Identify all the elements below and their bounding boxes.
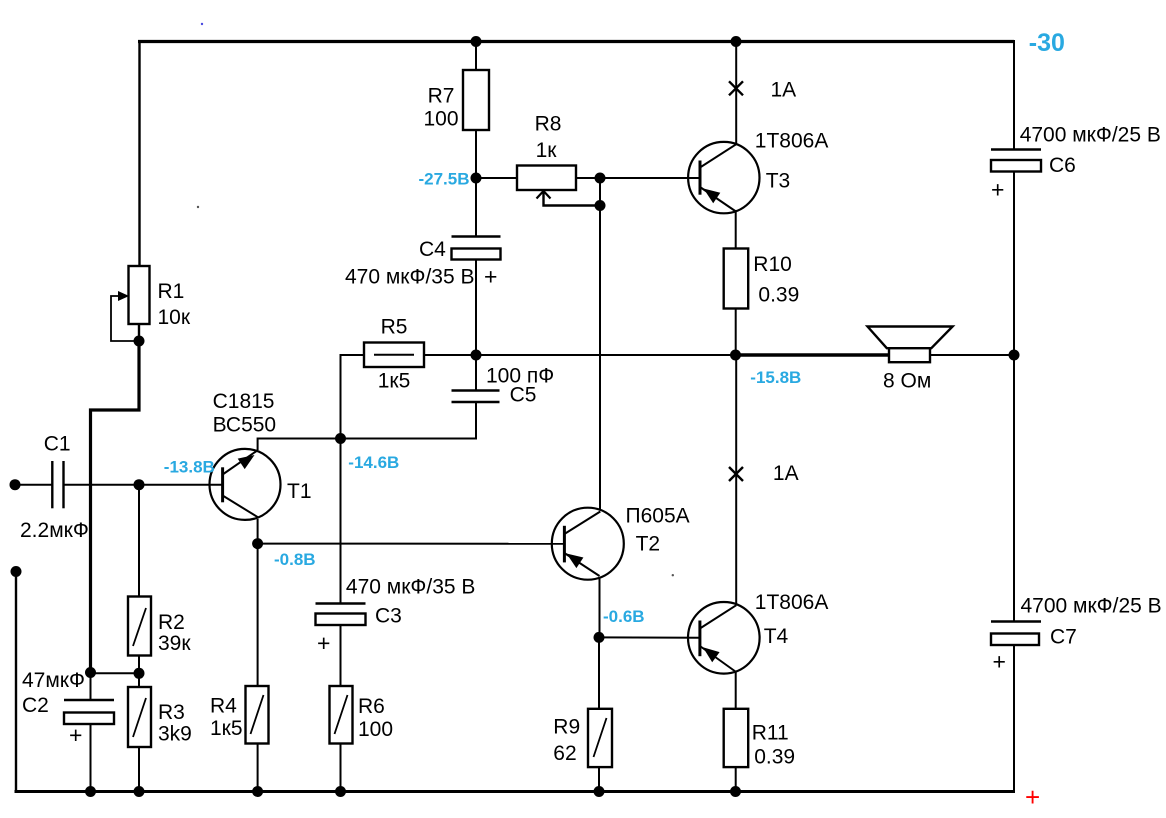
- svg-text:R10: R10: [753, 253, 792, 276]
- svg-text:С5: С5: [510, 384, 537, 407]
- wire top -30 rail: [138, 40, 1014, 43]
- fuse 1A top: [729, 81, 743, 95]
- wire bottom plus rail: [15, 790, 1016, 793]
- svg-text:С2: С2: [22, 694, 49, 717]
- wire thick branch from R1 junction down left: [91, 341, 140, 673]
- node R1 bottom: [134, 336, 145, 347]
- transistor T4: [688, 602, 760, 674]
- node ground terminal: [11, 566, 22, 577]
- wire T4 emitter to R11: [735, 671, 737, 710]
- svg-text:+: +: [1025, 782, 1040, 812]
- svg-text:3k9: 3k9: [158, 723, 192, 746]
- wire -0.6 node down to R9: [598, 637, 600, 709]
- wire C2 bottom to rail: [90, 723, 92, 792]
- svg-text:4700 мкФ/25 В: 4700 мкФ/25 В: [1020, 124, 1161, 147]
- wire R9 bottom to rail: [598, 766, 600, 792]
- svg-text:-14.6В: -14.6В: [348, 453, 399, 472]
- wire R2 to R3: [138, 655, 140, 689]
- svg-text:R8: R8: [535, 113, 562, 136]
- svg-text:R4: R4: [210, 695, 237, 718]
- svg-text:R9: R9: [553, 716, 580, 739]
- svg-text:4700 мкФ/25 В: 4700 мкФ/25 В: [1021, 595, 1162, 618]
- node R2 R3: [134, 668, 145, 679]
- svg-text:ВС550: ВС550: [213, 414, 277, 437]
- wire vertical x600 from R8 node to T2 collector: [599, 178, 601, 509]
- node -27.5V: [471, 173, 482, 184]
- node -14.6V: [335, 433, 346, 444]
- node R8 right: [595, 173, 606, 184]
- svg-text:1к5: 1к5: [210, 717, 243, 740]
- fuse 1A bottom: [729, 467, 743, 481]
- svg-text:-0.8В: -0.8В: [274, 550, 316, 569]
- capacitor C6: [991, 150, 1041, 172]
- wire C1 to T1 base node: [64, 484, 224, 486]
- wire R1 wiper: [111, 296, 139, 341]
- svg-text:R11: R11: [752, 722, 789, 745]
- transistor T2: [552, 508, 624, 580]
- wire T1 emitter node to T2 base: [258, 543, 565, 545]
- wire R8 wiper to node: [544, 192, 601, 206]
- svg-text:R5: R5: [381, 316, 408, 339]
- node input base: [134, 479, 145, 490]
- svg-text:R7: R7: [428, 85, 455, 108]
- wire speaker to C6 column: [929, 354, 1015, 356]
- wire R5 left elbow down to -14.6 node: [340, 354, 342, 440]
- wire R4 bottom to rail: [257, 743, 259, 793]
- node C2 top: [85, 667, 96, 678]
- wire base of T3: [600, 177, 700, 179]
- svg-text:1Т806А: 1Т806А: [755, 591, 829, 614]
- svg-text:R2: R2: [158, 611, 185, 634]
- transistor T1: [210, 449, 281, 520]
- wire T1 base node down to R2: [138, 485, 140, 598]
- node rail R3: [134, 786, 145, 797]
- svg-text:Т3: Т3: [766, 170, 791, 193]
- svg-text:1к: 1к: [536, 139, 558, 162]
- node output -15.8V: [730, 350, 741, 361]
- node rail R9: [594, 786, 605, 797]
- capacitor C5: [452, 391, 500, 403]
- wire R11 bottom to rail: [735, 766, 737, 792]
- wire C2 top stub: [90, 673, 92, 702]
- wire R7 to C4: [475, 129, 477, 237]
- svg-text:-27.5В: -27.5В: [418, 170, 469, 189]
- capacitor C7: [991, 622, 1041, 646]
- svg-text:0.39: 0.39: [754, 746, 795, 769]
- wire C5 bottom loop: [341, 401, 476, 439]
- potentiometer R1: [129, 266, 150, 324]
- svg-text:С7: С7: [1050, 626, 1077, 649]
- wire R3 bottom to rail: [138, 747, 140, 793]
- resistor R11: [724, 709, 749, 767]
- svg-text:-0.6В: -0.6В: [603, 607, 645, 626]
- svg-text:С1815: С1815: [213, 390, 275, 413]
- resistor R3: [128, 687, 151, 747]
- wire output horizontal thin: [340, 354, 736, 356]
- svg-text:R6: R6: [358, 695, 385, 718]
- svg-text:R3: R3: [158, 701, 185, 724]
- svg-text:+: +: [991, 177, 1004, 203]
- svg-text:Т1: Т1: [287, 480, 312, 503]
- speaker 8 Ohm: [868, 327, 953, 363]
- wire T1 emitter down: [257, 519, 259, 545]
- node -0.6V: [594, 632, 605, 643]
- node top rail R7: [471, 36, 482, 47]
- svg-text:39к: 39к: [158, 632, 191, 655]
- wire left ground drop: [15, 572, 17, 794]
- wire cross link C2 node to R2R3 node: [91, 672, 140, 674]
- svg-text:10к: 10к: [158, 306, 191, 329]
- wire left drop from rail to R1: [138, 40, 140, 267]
- svg-text:+: +: [317, 630, 330, 656]
- svg-text:0.39: 0.39: [758, 284, 799, 307]
- wire T3 collector to top rail: [735, 42, 737, 146]
- wire R10 to output node: [735, 308, 737, 357]
- stray speck blue top: [201, 23, 203, 25]
- wire input to C1: [15, 484, 53, 486]
- stray speck gray right: [672, 574, 674, 576]
- svg-text:С6: С6: [1049, 154, 1076, 177]
- capacitor C2: [64, 700, 114, 724]
- svg-text:1А: 1А: [771, 79, 797, 102]
- svg-text:С1: С1: [44, 433, 71, 456]
- wire C3 to R6: [340, 624, 342, 687]
- potentiometer R8: [517, 166, 576, 199]
- wire T4 collector up to output node: [735, 355, 737, 605]
- svg-text:R1: R1: [158, 280, 185, 303]
- wire T2 emitter down to -0.6 node: [599, 579, 601, 639]
- wire -0.6 node to T4 base: [599, 636, 700, 638]
- node speaker right: [1009, 350, 1020, 361]
- svg-text:С3: С3: [375, 605, 402, 628]
- node R8 wiper: [595, 200, 606, 211]
- resistor R7: [463, 70, 489, 130]
- resistor R6: [330, 686, 353, 744]
- wire output thick to speaker: [736, 353, 891, 357]
- wire C6 to C7: [1013, 171, 1015, 622]
- node top rail T3: [731, 36, 742, 47]
- node input terminal: [10, 479, 21, 490]
- resistor R5: [364, 343, 424, 368]
- node C4 output: [471, 350, 482, 361]
- node rail R6: [335, 786, 346, 797]
- svg-text:+: +: [69, 722, 82, 748]
- svg-text:П605А: П605А: [626, 505, 690, 528]
- capacitor C3: [316, 604, 366, 626]
- svg-text:62: 62: [553, 742, 576, 765]
- svg-text:-30: -30: [1029, 29, 1065, 57]
- capacitor C1: [52, 461, 63, 508]
- wire R1 bottom to junction: [138, 323, 140, 343]
- wire right column rail to C6: [1013, 40, 1015, 150]
- node rail R11: [730, 786, 741, 797]
- resistor R4: [246, 686, 269, 744]
- resistor R10: [724, 249, 749, 309]
- svg-text:1Т806А: 1Т806А: [755, 130, 829, 153]
- wire R6 bottom to rail: [340, 743, 342, 793]
- wire C4 to output node and C5 top: [475, 259, 477, 392]
- svg-text:+: +: [484, 264, 497, 290]
- node rail R4: [252, 786, 263, 797]
- svg-text:Т2: Т2: [636, 533, 661, 556]
- svg-text:1к5: 1к5: [378, 370, 411, 393]
- svg-text:1А: 1А: [773, 462, 799, 485]
- svg-text:Т4: Т4: [764, 625, 789, 648]
- capacitor C4: [452, 237, 501, 260]
- svg-text:С4: С4: [419, 238, 446, 261]
- wire R7 top stub: [475, 42, 477, 72]
- svg-text:47мкФ: 47мкФ: [22, 669, 85, 692]
- svg-text:-13.8В: -13.8В: [164, 458, 215, 477]
- node rail C2: [85, 786, 96, 797]
- svg-text:+: +: [993, 649, 1006, 675]
- wire T3 emitter to R10: [735, 210, 737, 250]
- svg-text:100: 100: [358, 718, 393, 741]
- svg-text:470 мкФ/35 В: 470 мкФ/35 В: [346, 576, 476, 599]
- wire T1 emitter node down to R4: [257, 544, 259, 687]
- svg-text:470 мкФ/35 В: 470 мкФ/35 В: [345, 266, 475, 289]
- resistor R2: [128, 597, 151, 656]
- wire R8 right to node: [575, 177, 601, 179]
- svg-text:2.2мкФ: 2.2мкФ: [20, 519, 89, 542]
- wire node to R8 left: [476, 177, 518, 179]
- node -0.8V: [252, 538, 263, 549]
- svg-text:8 Ом: 8 Ом: [883, 370, 931, 393]
- wire C7 to bottom rail: [1013, 645, 1015, 794]
- svg-text:100: 100: [423, 108, 458, 131]
- resistor R9: [588, 709, 612, 767]
- transistor T3: [688, 142, 759, 213]
- wire T1 collector elbow to -14.6 node: [258, 439, 342, 451]
- wire R1 wiper arrowhead: [118, 291, 129, 301]
- svg-text:-15.8В: -15.8В: [750, 368, 801, 387]
- wire -14.6 node down to C3: [340, 439, 342, 605]
- stray speck gray: [197, 206, 199, 208]
